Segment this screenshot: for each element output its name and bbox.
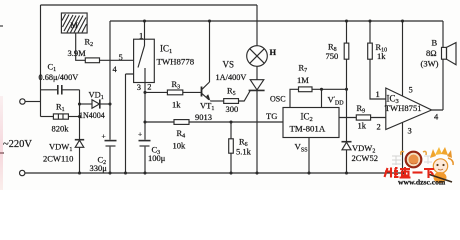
resistor R7 1M: [299, 87, 313, 92]
wire IC1 pin4 to ground: [126, 74, 134, 173]
wire VDD pin of IC2: [321, 89, 323, 107]
resistor R6 5.1k: [230, 122, 232, 173]
resistor R10 1k: [370, 21, 386, 99]
capacitor C2 330u: [105, 140, 117, 142]
node pin1 rail: [143, 19, 146, 22]
wire IC1 pin2/3 vertical: [144, 68, 146, 173]
svg-text:www.dzsc.com: www.dzsc.com: [398, 178, 446, 187]
watermark dzsc logo: [0, 0, 460, 190]
resistor R5 300: [224, 99, 239, 104]
node C1-VD1 anode: [78, 102, 81, 105]
resistor R4 10k: [174, 120, 189, 125]
node R10 rail: [368, 19, 371, 22]
node R6 branch: [229, 120, 232, 123]
wire bottom rail: [25, 172, 403, 174]
wire R2 to IC1 pin5: [100, 59, 134, 61]
node VDW2 ground: [345, 171, 348, 174]
wire top rail B: [110, 20, 443, 22]
wire R3 left lead: [145, 91, 167, 93]
wire R7 right lead: [312, 88, 347, 90]
wire to R1: [41, 116, 54, 118]
op-amp IC3 TWH8751 triangle: [386, 88, 432, 130]
wire R5 to VS gate: [239, 91, 251, 101]
node pin4 ground: [124, 171, 127, 174]
wire upper mains terminal lead: [25, 101, 40, 103]
node VDD pin: [320, 88, 323, 91]
node VD1 cathode / C2: [108, 102, 111, 105]
resistor R3 1k: [167, 90, 182, 95]
lamp H: [247, 46, 268, 67]
terminal lower: [20, 170, 25, 175]
wire IC1 pin1: [144, 21, 146, 39]
transistor VT1 9013: [201, 87, 203, 97]
wire VD1 cathode lead: [100, 103, 110, 105]
wire VT1 emitter to R5: [210, 100, 223, 102]
speaker B 8ohm 3W: [442, 47, 447, 59]
node VSS ground: [307, 171, 310, 174]
node R8 rail: [345, 19, 348, 22]
node C3 ground: [143, 171, 146, 174]
wire left rail: [40, 5, 42, 117]
wire main vertical x110: [109, 21, 111, 173]
node R8 zener junction: [345, 88, 348, 91]
thyristor VS 1A/400V: [250, 80, 264, 90]
capacitor C3 100u: [139, 140, 151, 142]
op-amp IC1 TWH8778 box: [134, 39, 155, 82]
zener VDW1 2CW110: [75, 139, 84, 141]
wire IC3 pin5: [402, 21, 404, 96]
node VS ground: [255, 171, 258, 174]
scan artifact edge marks: [0, 25, 3, 27]
node C2 ground: [108, 171, 111, 174]
wire OSC pin of IC2: [290, 89, 299, 107]
node R1-VD1: [78, 115, 81, 118]
node R6 ground: [229, 171, 232, 174]
diode VD1 1N4004: [92, 100, 99, 108]
node pin5 rail: [401, 19, 404, 22]
IC1 internal switch: [138, 39, 145, 67]
red text wei ku yi xia: [385, 167, 435, 178]
wire VSS pin of IC2: [308, 138, 310, 174]
wire R3 to VT1 base: [183, 91, 201, 93]
wire C1 right lead and down: [62, 90, 80, 140]
node VDW1 ground: [78, 171, 81, 174]
node R4 branch: [143, 120, 146, 123]
resistor R8 750: [346, 21, 348, 141]
wire touch plate to R2: [76, 33, 86, 60]
capacitor C1: [57, 85, 59, 95]
wire lamp and VS chain: [256, 5, 258, 173]
mascot: [428, 147, 453, 183]
wire IC3 pin3: [402, 122, 404, 173]
medallion: [406, 152, 422, 168]
resistor R9 1k: [356, 115, 370, 120]
terminal upper: [20, 99, 25, 104]
wire R1 right lead: [68, 116, 79, 118]
wire VDW1 bottom lead: [79, 147, 81, 173]
wire IC3 pin4 to speaker: [432, 21, 443, 110]
wire TG line with R4: [145, 121, 283, 123]
scan artifact left edge: [0, 96, 3, 190]
wire VD1 anode lead: [80, 103, 93, 105]
wire top rail A: [41, 4, 258, 6]
node collector rail: [208, 19, 211, 22]
wire R9 line: [339, 117, 386, 119]
wire C1 left lead: [41, 89, 58, 91]
node R3 branch: [143, 91, 146, 94]
zener VDW2 2CW52: [342, 141, 352, 143]
touch plate M: [61, 13, 87, 33]
wire VT1 collector to rail: [209, 21, 211, 82]
resistor R1: [53, 114, 68, 119]
resistor R2 3.9M: [85, 58, 99, 63]
node pin3 ground: [401, 171, 404, 174]
op-amp IC2 TM-801A box: [283, 108, 339, 138]
